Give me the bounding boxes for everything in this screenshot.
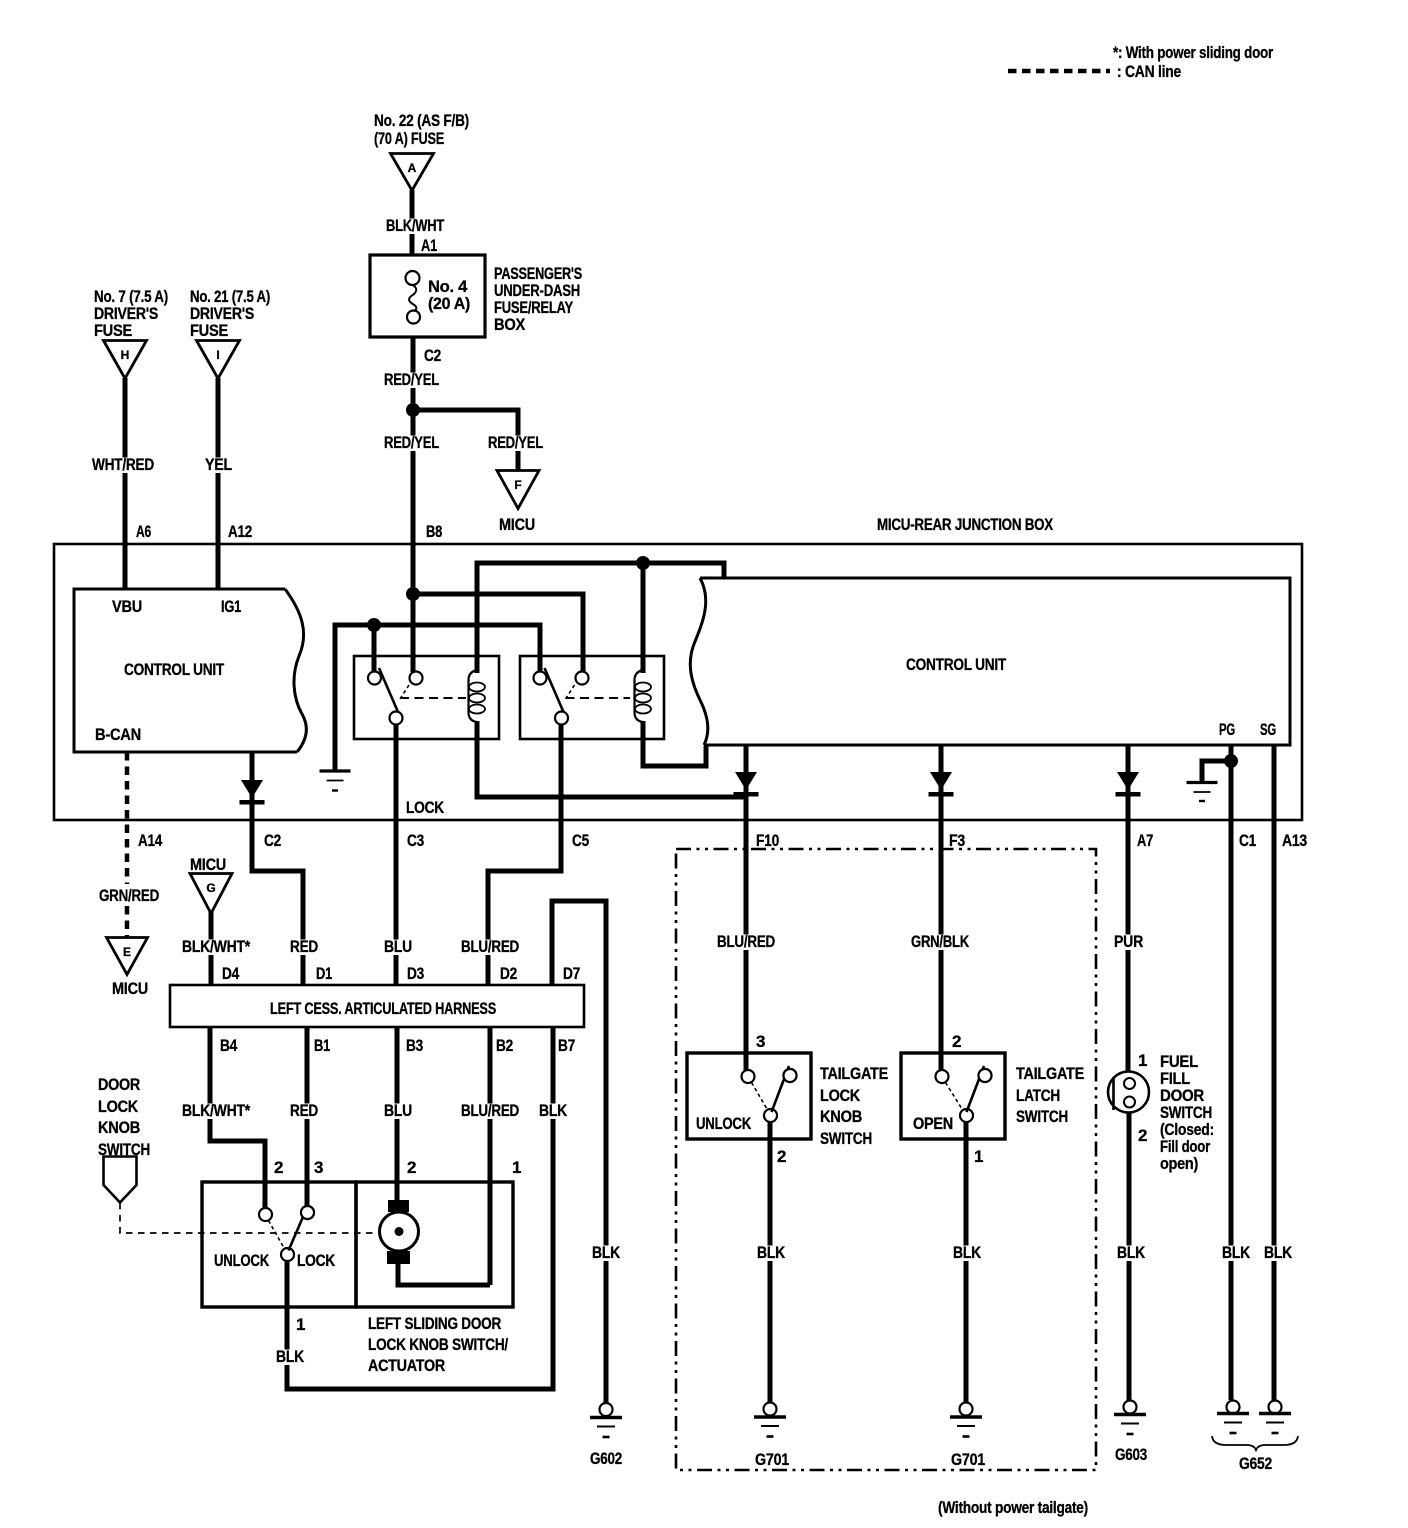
- wire ground header to relay switches: [335, 625, 540, 770]
- wire junction to MICU branch: [413, 410, 518, 471]
- svg-text:RED: RED: [290, 937, 318, 956]
- svg-text:BLK/WHT*: BLK/WHT*: [182, 1101, 251, 1120]
- wire A to fuse box: [410, 190, 415, 256]
- wire tailgate lock switch to G701: [768, 1122, 773, 1403]
- svg-text:BLU: BLU: [384, 937, 412, 956]
- label BLK/WHT*: [180, 940, 252, 956]
- svg-text:UNLOCK: UNLOCK: [696, 1114, 752, 1133]
- svg-text:F10: F10: [756, 831, 779, 850]
- svg-text:UNLOCK: UNLOCK: [214, 1251, 270, 1270]
- ground C1 bolt: [1227, 1401, 1240, 1414]
- label BLK (G701 right): [951, 1246, 983, 1262]
- svg-text:I: I: [216, 348, 219, 362]
- label BLK (B7): [537, 1104, 569, 1120]
- door lock knob symbol: [104, 1157, 137, 1203]
- label RED: [288, 940, 320, 956]
- wire tailgate latch switch to G701: [964, 1122, 969, 1403]
- svg-text:KNOB: KNOB: [98, 1118, 140, 1137]
- node coil feed junction: [636, 556, 650, 570]
- legend CAN line sample: [1008, 69, 1110, 74]
- svg-text:B1: B1: [314, 1036, 330, 1055]
- svg-text:MICU: MICU: [499, 515, 535, 534]
- svg-text:BLK: BLK: [1222, 1243, 1251, 1262]
- wire I to control unit IG1: [216, 378, 221, 590]
- svg-text:3: 3: [314, 1158, 323, 1177]
- svg-text:SWITCH: SWITCH: [820, 1129, 872, 1148]
- MICU-REAR JUNCTION BOX border: [54, 544, 1302, 820]
- label BLU/RED lower: [459, 1104, 521, 1120]
- svg-text:YEL: YEL: [205, 455, 232, 474]
- wire relay1 coil to F10 diode line: [477, 721, 746, 797]
- svg-text:FUSE: FUSE: [94, 321, 132, 340]
- wire B2 to actuator pin 1: [488, 1027, 493, 1285]
- svg-text:G603: G603: [1115, 1445, 1147, 1464]
- svg-text:D3: D3: [407, 964, 424, 983]
- ground G603: [1124, 1401, 1137, 1414]
- wire PG to ground and C1: [1229, 746, 1234, 1400]
- svg-text:ACTUATOR: ACTUATOR: [368, 1356, 445, 1375]
- svg-text:MICU: MICU: [112, 979, 148, 998]
- control unit U2 (right, torn edge): [690, 578, 1290, 745]
- svg-text:MICU: MICU: [190, 855, 226, 874]
- label BLK (G603): [1115, 1246, 1147, 1262]
- tailgate lock switch dashed arm: [752, 1083, 768, 1110]
- svg-text:open): open): [1160, 1154, 1198, 1173]
- svg-text:(20 A): (20 A): [428, 294, 470, 313]
- tailgate latch switch contacts: [936, 1070, 949, 1083]
- tailgate latch switch box: [901, 1053, 1005, 1139]
- label BLU/RED: [459, 940, 521, 956]
- wire F10 with diode: [744, 746, 749, 1070]
- node B8 junction: [406, 587, 420, 601]
- svg-text:A6: A6: [136, 522, 151, 541]
- svg-text:PG: PG: [1219, 720, 1235, 739]
- svg-text:F: F: [514, 478, 521, 492]
- label PUR: [1112, 935, 1145, 951]
- svg-text:C2: C2: [424, 346, 441, 365]
- svg-text:LEFT CESS. ARTICULATED HARNESS: LEFT CESS. ARTICULATED HARNESS: [270, 999, 496, 1018]
- connector triangle A: [391, 154, 434, 191]
- svg-text:BLK: BLK: [953, 1243, 982, 1262]
- ground (junction box internal): [320, 769, 351, 772]
- svg-text:C5: C5: [572, 831, 589, 850]
- svg-text:KNOB: KNOB: [820, 1107, 862, 1126]
- svg-text:DOOR: DOOR: [98, 1075, 140, 1094]
- svg-text:MICU-REAR JUNCTION BOX: MICU-REAR JUNCTION BOX: [877, 515, 1054, 534]
- svg-text:BLU/RED: BLU/RED: [461, 1101, 519, 1120]
- svg-text:C3: C3: [407, 831, 424, 850]
- connector triangle I: [197, 341, 240, 379]
- wire junction down to relay1 common: [372, 625, 377, 672]
- wire control unit to diode D1: [252, 752, 303, 986]
- svg-text:2: 2: [1138, 1126, 1147, 1145]
- svg-text:LOCK: LOCK: [406, 798, 445, 817]
- label RED lower: [288, 1104, 320, 1120]
- switch arm solid: [289, 1210, 307, 1251]
- wire SG to A13: [1272, 746, 1277, 1400]
- relay K1 contact circles: [368, 672, 381, 685]
- tailgate latch switch dashed arm: [946, 1083, 963, 1110]
- label RED/YEL right: [486, 436, 545, 452]
- relay K2 switch arm: [545, 668, 564, 712]
- svg-text:BLK: BLK: [276, 1347, 305, 1366]
- svg-text:C1: C1: [1239, 831, 1256, 850]
- svg-text:*: With power sliding door: *: With power sliding door: [1113, 43, 1274, 62]
- wire B8 junction to relay2 coil-side contact: [413, 594, 583, 672]
- svg-text:D7: D7: [563, 964, 580, 983]
- dashed mechanical link knob to motor: [120, 1203, 378, 1233]
- svg-text:A14: A14: [138, 831, 163, 850]
- wire relay1 common to C3: [394, 725, 399, 986]
- actuator box: [356, 1182, 513, 1307]
- relay K1 armature dashed links: [400, 685, 409, 699]
- tailgate latch switch arm: [967, 1066, 985, 1112]
- wire B3 to motor: [395, 1027, 400, 1203]
- svg-text:VBU: VBU: [112, 597, 142, 616]
- diode D4 (A7): [1117, 772, 1139, 790]
- ground G602: [600, 1403, 613, 1416]
- label GRN/RED: [97, 889, 161, 905]
- svg-text:(70 A) FUSE: (70 A) FUSE: [374, 129, 444, 148]
- wire B-CAN dashed (CAN line): [125, 752, 130, 938]
- svg-text:BLK: BLK: [539, 1101, 568, 1120]
- switch arm dashed: [269, 1221, 285, 1249]
- svg-text:FUSE: FUSE: [190, 321, 228, 340]
- svg-text:3: 3: [756, 1032, 765, 1051]
- brace G652: [1212, 1436, 1298, 1450]
- svg-text:G701: G701: [951, 1450, 985, 1469]
- label BLU lower: [382, 1104, 414, 1120]
- svg-text:A12: A12: [228, 522, 252, 541]
- node PG junction: [1224, 754, 1238, 768]
- svg-text:F3: F3: [949, 831, 965, 850]
- wire D7 to G602 ground: [552, 901, 606, 1403]
- label BLK pin1: [274, 1350, 306, 1366]
- label BLK (G701 left): [755, 1246, 787, 1262]
- svg-text:CONTROL UNIT: CONTROL UNIT: [906, 655, 1007, 674]
- motor M1: [380, 1212, 419, 1251]
- svg-text:SG: SG: [1260, 720, 1276, 739]
- svg-text:BLU/RED: BLU/RED: [461, 937, 519, 956]
- svg-text:TAILGATE: TAILGATE: [1016, 1064, 1084, 1083]
- svg-text:IG1: IG1: [221, 597, 241, 616]
- svg-text:2: 2: [274, 1158, 283, 1177]
- svg-text:D1: D1: [316, 964, 332, 983]
- wire F3 with diode: [939, 746, 944, 1070]
- label LOCK: [404, 801, 446, 817]
- svg-text:BLK: BLK: [1117, 1243, 1146, 1262]
- relay K2 coil: [635, 670, 644, 722]
- svg-text:BLK/WHT: BLK/WHT: [386, 216, 445, 235]
- svg-text:1: 1: [296, 1315, 305, 1334]
- svg-text:BOX: BOX: [494, 315, 526, 334]
- switch contact circles: [259, 1208, 272, 1221]
- node junction RED/YEL: [406, 403, 420, 417]
- tailgate lock switch arm: [772, 1066, 790, 1112]
- svg-text:D2: D2: [500, 964, 517, 983]
- wire B8 junction down to relay1 contact: [411, 594, 416, 672]
- label BLU/RED (F10): [715, 935, 777, 951]
- svg-text:GRN/RED: GRN/RED: [99, 886, 159, 905]
- svg-text:RED: RED: [290, 1101, 318, 1120]
- svg-text:RED/YEL: RED/YEL: [488, 433, 543, 452]
- wire B1 to switch pin 3: [305, 1027, 310, 1206]
- svg-text:B8: B8: [426, 522, 442, 541]
- svg-text:OPEN: OPEN: [913, 1114, 953, 1133]
- svg-text:: CAN line: : CAN line: [1117, 62, 1181, 81]
- diode D2 (F10): [735, 772, 757, 790]
- svg-text:B4: B4: [220, 1036, 238, 1055]
- connector triangle G: [190, 874, 232, 914]
- svg-text:B-CAN: B-CAN: [95, 725, 141, 744]
- relay K1 switch arm: [379, 668, 398, 712]
- svg-text:LOCK KNOB SWITCH/: LOCK KNOB SWITCH/: [368, 1335, 508, 1354]
- wire coil feed header: [477, 563, 724, 673]
- svg-text:C2: C2: [264, 831, 281, 850]
- connector triangle F: [497, 471, 539, 509]
- wire switch common down: [285, 1261, 290, 1389]
- connector triangle H: [104, 341, 147, 379]
- svg-text:1: 1: [1138, 1051, 1147, 1070]
- svg-text:SWITCH: SWITCH: [1016, 1107, 1068, 1126]
- label RED/YEL: [382, 373, 441, 389]
- wire junction down to relay2 coil: [641, 563, 646, 673]
- svg-text:1: 1: [974, 1147, 983, 1166]
- fuel fill door switch SW1: [1108, 1072, 1149, 1113]
- svg-text:B7: B7: [558, 1036, 575, 1055]
- svg-text:B2: B2: [496, 1036, 513, 1055]
- wire relay2 coil to control unit: [643, 721, 706, 766]
- diode D3 (F3): [930, 772, 952, 790]
- label RED/YEL left: [382, 436, 441, 452]
- svg-text:PUR: PUR: [1114, 932, 1143, 951]
- svg-text:(Without power tailgate): (Without power tailgate): [938, 1498, 1088, 1517]
- wire A7 with diode: [1126, 746, 1131, 1072]
- svg-text:LATCH: LATCH: [1016, 1086, 1060, 1105]
- wire fuel fill to G603: [1127, 1113, 1132, 1401]
- connector triangle E: [107, 938, 148, 975]
- fuse No.4 symbol: [406, 271, 420, 285]
- svg-text:GRN/BLK: GRN/BLK: [911, 932, 970, 951]
- relay K1 coil: [469, 670, 478, 722]
- svg-text:BLK/WHT*: BLK/WHT*: [182, 937, 251, 956]
- harness connector box: [170, 985, 584, 1027]
- svg-text:B3: B3: [406, 1036, 423, 1055]
- wire relay2 common to C5: [488, 725, 561, 986]
- ground PG: [1187, 781, 1218, 784]
- svg-text:LEFT SLIDING DOOR: LEFT SLIDING DOOR: [368, 1314, 501, 1333]
- tailgate lock switch contacts: [742, 1070, 755, 1083]
- svg-text:BLK: BLK: [757, 1243, 786, 1262]
- label BLU: [382, 940, 414, 956]
- svg-text:1: 1: [512, 1158, 521, 1177]
- relay K2 armature dashed links: [566, 685, 575, 699]
- svg-text:WHT/RED: WHT/RED: [92, 455, 154, 474]
- svg-text:G652: G652: [1239, 1454, 1272, 1473]
- svg-text:A1: A1: [421, 236, 437, 255]
- svg-text:E: E: [123, 945, 131, 959]
- relay K1 box: [354, 656, 499, 739]
- svg-text:A: A: [408, 161, 417, 175]
- wire motor to pin 1: [398, 1264, 490, 1285]
- label YEL: [203, 458, 234, 474]
- svg-text:2: 2: [407, 1158, 416, 1177]
- tailgate lock knob switch box: [687, 1053, 811, 1139]
- node ground header junction: [367, 618, 381, 632]
- relay K2 box: [520, 656, 664, 739]
- wire H to control unit VBU: [123, 378, 128, 590]
- label BLK (G602): [590, 1246, 622, 1262]
- svg-text:D4: D4: [222, 964, 240, 983]
- svg-text:A7: A7: [1137, 831, 1153, 850]
- ground A13 bolt: [1269, 1401, 1282, 1414]
- svg-text:No. 22 (AS F/B): No. 22 (AS F/B): [374, 111, 469, 130]
- label GRN/BLK (F3): [909, 935, 971, 951]
- svg-text:G602: G602: [590, 1449, 622, 1468]
- svg-text:G: G: [206, 881, 215, 895]
- wire G to D4: [209, 910, 214, 986]
- wire B7 to switch pin 1: [287, 1027, 553, 1389]
- label BLK (C1): [1218, 1246, 1250, 1262]
- svg-text:TAILGATE: TAILGATE: [820, 1064, 888, 1083]
- svg-text:CONTROL UNIT: CONTROL UNIT: [124, 660, 225, 679]
- wire B8 into box: [411, 544, 416, 594]
- svg-text:BLU: BLU: [384, 1101, 412, 1120]
- svg-text:BLU/RED: BLU/RED: [717, 932, 775, 951]
- wire C2 down to junction: [411, 337, 416, 410]
- label WHT/RED: [90, 458, 156, 474]
- svg-text:BLK: BLK: [592, 1243, 621, 1262]
- tailgate option dashed box: [676, 849, 1096, 1470]
- ground G701 right: [960, 1403, 973, 1416]
- svg-text:2: 2: [952, 1032, 961, 1051]
- svg-text:BLK: BLK: [1264, 1243, 1293, 1262]
- door lock switch box: [202, 1182, 356, 1307]
- svg-text:A13: A13: [1282, 831, 1307, 850]
- label BLK (A13): [1260, 1246, 1292, 1262]
- svg-text:RED/YEL: RED/YEL: [384, 433, 439, 452]
- svg-text:LOCK: LOCK: [820, 1086, 861, 1105]
- label BLK/WHT: [384, 219, 446, 235]
- wire B4 to switch pin 2: [210, 1027, 265, 1208]
- svg-text:LOCK: LOCK: [98, 1097, 139, 1116]
- label BLK/WHT* lower: [180, 1104, 252, 1120]
- ground G701 left: [764, 1403, 777, 1416]
- control unit U1 (left, torn edge): [74, 589, 306, 752]
- svg-text:G701: G701: [755, 1450, 789, 1469]
- diode D1: [241, 780, 263, 798]
- svg-text:LOCK: LOCK: [297, 1251, 336, 1270]
- passenger's under-dash fuse/relay box: [370, 255, 485, 337]
- svg-text:RED/YEL: RED/YEL: [384, 370, 439, 389]
- wire junction down B8: [411, 410, 416, 546]
- relay K2 contact circles: [534, 672, 547, 685]
- svg-text:2: 2: [777, 1147, 786, 1166]
- svg-text:H: H: [121, 348, 130, 362]
